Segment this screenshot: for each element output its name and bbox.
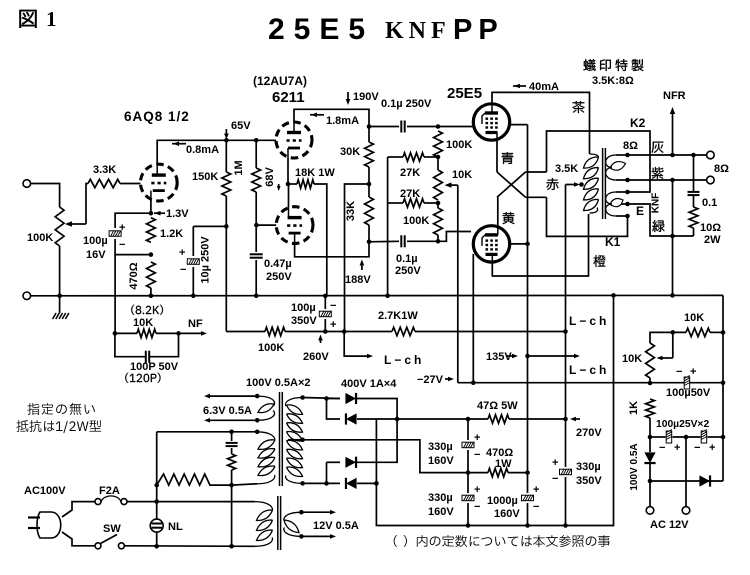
- svg-text:100µ50V: 100µ50V: [666, 387, 711, 399]
- capacitor C16 100u 25V: [701, 431, 707, 443]
- terminal AC12V right: [685, 437, 687, 507]
- wire 8ohm output bottom (purple): [628, 179, 708, 181]
- wire 1K to cap row: [649, 418, 651, 437]
- tube V5 25E5 lower: [473, 226, 509, 262]
- svg-text:1.8mA: 1.8mA: [326, 115, 359, 127]
- ground symbol: [59, 296, 61, 313]
- B+ node down to 47ohm: [565, 332, 567, 420]
- resistor R13 100K lower grid: [437, 203, 439, 208]
- svg-text:0.1µ 250V: 0.1µ 250V: [381, 98, 432, 110]
- capacitor C8 100u 350V electrolytic: [324, 296, 326, 309]
- diode D5 down: [649, 437, 651, 452]
- plug: [37, 512, 61, 538]
- capacitor C4 0.47u 250V: [255, 225, 257, 252]
- diode D6: [699, 475, 710, 486]
- resistor R6 1M: [255, 140, 257, 168]
- diode D3: [327, 461, 341, 463]
- svg-text:10K: 10K: [684, 312, 704, 324]
- neon lamp NL: [156, 485, 158, 519]
- svg-text:10K: 10K: [452, 169, 472, 181]
- resistor R16 2.7K 1W: [392, 327, 415, 335]
- 65V rail to 150K/1M and 6211 grid: [226, 139, 276, 141]
- capacitor C7 0.1 zobel: [693, 155, 695, 191]
- svg-text:100K: 100K: [446, 139, 472, 151]
- svg-text:188V: 188V: [345, 274, 371, 286]
- center tap red arrow: [566, 184, 577, 186]
- snubber capacitor C13: [231, 432, 233, 441]
- wire 6211 lower plate up to SRPP node: [288, 184, 290, 207]
- svg-text:−: −: [533, 501, 539, 513]
- svg-text:330µ: 330µ: [428, 441, 453, 453]
- diode D4: [326, 462, 328, 483]
- wire switch to heater transformer: [124, 545, 254, 548]
- svg-text:−: −: [119, 239, 125, 251]
- mid tap wire to cap midpoint: [303, 440, 468, 473]
- potentiometer VR1 100K: [55, 207, 64, 246]
- ground bus wire: [30, 294, 723, 296]
- input terminal J1: [23, 180, 31, 188]
- wire junction to screen feed 344: [345, 184, 370, 332]
- label 188V with up arrow: [361, 262, 363, 270]
- capacitor C2 100P 50V: [115, 333, 145, 356]
- label 0.8mA with left arrow: [172, 143, 186, 145]
- wire 6211 upper cathode to SRPP node: [287, 158, 289, 184]
- svg-text:E: E: [636, 204, 644, 218]
- svg-text:330µ: 330µ: [428, 492, 453, 504]
- capacitor C14 100u 50V: [684, 377, 690, 389]
- wire E tap: [628, 204, 673, 236]
- NF resistor R4 10K (8.2K): [131, 305, 163, 315]
- svg-text:47Ω 5W: 47Ω 5W: [477, 400, 518, 412]
- svg-text:−: −: [659, 442, 665, 454]
- note （）内の定数については本文参照の事: [394, 535, 610, 547]
- svg-text:160V: 160V: [494, 508, 520, 520]
- svg-text:+: +: [552, 457, 558, 469]
- svg-text:+: +: [330, 319, 336, 331]
- tube V4 25E5 upper: [473, 104, 509, 140]
- wire fuse to transformer: [127, 501, 255, 503]
- wire K1 route lower: [547, 197, 628, 236]
- svg-text:+: +: [674, 442, 680, 454]
- svg-text:190V: 190V: [353, 91, 379, 103]
- svg-text:L−ch: L−ch: [569, 363, 609, 377]
- svg-text:40mA: 40mA: [529, 81, 559, 93]
- svg-text:6.3V 0.5A: 6.3V 0.5A: [203, 405, 252, 417]
- svg-text:K1: K1: [605, 235, 621, 249]
- wire 33K bottom to 0.1u node: [368, 225, 370, 242]
- tube V2 6211 upper: [276, 122, 312, 158]
- svg-text:12V 0.5A: 12V 0.5A: [313, 520, 359, 532]
- wire wiper up to 3.3K: [86, 184, 88, 225]
- svg-text:3.5K:8Ω: 3.5K:8Ω: [592, 75, 634, 87]
- svg-text:8Ω: 8Ω: [714, 163, 729, 175]
- svg-text:65V: 65V: [231, 120, 251, 132]
- snubber resistor R19: [231, 448, 233, 454]
- capacitor C10 330u 160V lower: [467, 473, 469, 493]
- wiper of VR2 to -27V line: [448, 184, 458, 186]
- tube V3 6211 lower: [276, 207, 313, 244]
- svg-text:K2: K2: [630, 116, 646, 130]
- resistor R8 30K: [368, 127, 370, 143]
- svg-text:+: +: [709, 442, 715, 454]
- svg-text:−: −: [676, 366, 682, 378]
- svg-text:6211: 6211: [272, 89, 305, 106]
- wire plug to fuse: [62, 502, 95, 517]
- wire 470 bottom to ground bus: [150, 288, 152, 296]
- svg-text:2.7K1W: 2.7K1W: [378, 310, 418, 322]
- terminal AC12V left: [649, 481, 651, 507]
- wire 150K down to B+ rail corner: [225, 196, 227, 332]
- resistor R17 47ohm 5W: [468, 418, 488, 420]
- svg-text:NFR: NFR: [663, 90, 686, 102]
- note 指定の無い抵抗は1/2W型: [27, 403, 94, 415]
- 12V arrows: [301, 511, 332, 513]
- label 蟻印特製: [583, 59, 643, 71]
- wire from diode rail to 47ohm node: [397, 418, 468, 420]
- svg-text:NF: NF: [188, 318, 203, 330]
- wire 27K left column: [388, 156, 403, 158]
- OPT core: [602, 148, 604, 219]
- svg-text:250V: 250V: [395, 265, 421, 277]
- wire 25E5 lower cathode to orange: [492, 214, 588, 276]
- capacitor C1 100u 16V electrolytic: [109, 231, 121, 237]
- capacitor C6 0.1u 250V lower: [369, 240, 399, 243]
- svg-text:+: +: [119, 222, 125, 234]
- capacitor C3 10u 250V electrolytic: [193, 225, 226, 227]
- NFR arrow: [672, 112, 674, 155]
- svg-text:0.8mA: 0.8mA: [186, 144, 219, 156]
- thermistor R20: [156, 432, 158, 485]
- wiper of VR3: [660, 357, 673, 359]
- wire cathode node to 100u cap: [115, 213, 151, 228]
- wire plug to switch: [62, 532, 95, 546]
- resistor R3 470ohm: [147, 262, 156, 288]
- resistor R5 150K: [225, 140, 227, 172]
- svg-text:100µ: 100µ: [83, 235, 108, 247]
- svg-text:330µ: 330µ: [576, 461, 601, 473]
- wire grid upper 25E5: [438, 126, 474, 128]
- PT primary winding: [257, 432, 275, 441]
- resistor R7 18K 1W: [288, 183, 297, 185]
- wire grid lower 25E5: [438, 232, 471, 242]
- label 270V with left arrow: [573, 418, 580, 420]
- svg-text:−: −: [552, 473, 558, 485]
- wire 6AQ8 plate up to 65V rail: [157, 140, 226, 165]
- svg-text:+: +: [533, 484, 539, 496]
- svg-text:18K 1W: 18K 1W: [295, 167, 335, 179]
- L-ch arrow 1: [344, 332, 369, 357]
- wire K2 route upper: [547, 131, 651, 192]
- resistor R10 100K upper grid: [434, 131, 443, 157]
- label cha (brown): [572, 101, 584, 113]
- svg-text:100P 50V: 100P 50V: [130, 361, 179, 373]
- svg-text:SW: SW: [103, 523, 121, 535]
- screen rail vertical: [527, 125, 529, 356]
- PT 6.3V winding: [257, 396, 274, 406]
- wire 1M bottom to grid node: [255, 192, 257, 225]
- label 1.8mA with left arrow: [310, 114, 324, 116]
- NF arrow: [179, 332, 204, 334]
- PT HV secondary winding: [286, 398, 303, 407]
- power transformer PT core: [279, 392, 281, 486]
- svg-text:100K: 100K: [258, 342, 284, 354]
- resistor R12 27K lower: [403, 199, 424, 207]
- svg-text:F2A: F2A: [99, 485, 120, 497]
- diode rail top: [303, 398, 340, 399]
- OPT secondary 8ohm winding: [616, 154, 628, 156]
- negative bus bottom: [376, 295, 613, 525]
- label 橙 (orange): [593, 255, 605, 267]
- wire center tap B+ down: [565, 185, 567, 332]
- svg-text:100µ25V×2: 100µ25V×2: [656, 419, 709, 430]
- wire 6211 lower grid: [256, 224, 276, 226]
- svg-text:1.2K: 1.2K: [160, 228, 183, 240]
- right vertical from bus corner: [722, 295, 724, 481]
- capacitor C11 1000u 160V: [527, 473, 529, 493]
- wire 6AQ8 cathode down: [150, 200, 152, 213]
- svg-text:10µ 250V: 10µ 250V: [200, 236, 212, 284]
- svg-text:100V 0.5A: 100V 0.5A: [629, 443, 640, 490]
- wire pot bottom to ground bus: [59, 246, 61, 296]
- capacitor C12 330u 350V: [565, 419, 567, 467]
- label 260V with up arrow: [320, 337, 322, 343]
- svg-text:135V: 135V: [486, 351, 512, 363]
- svg-text:160V: 160V: [428, 506, 454, 518]
- svg-text:KNF: KNF: [651, 193, 662, 214]
- svg-text:−: −: [180, 264, 186, 276]
- B+ 260V rail: [226, 331, 265, 333]
- label 40mA with left arrow: [513, 85, 526, 87]
- HT primary winding: [255, 502, 273, 511]
- svg-text:27K: 27K: [400, 167, 420, 179]
- svg-text:3.5K: 3.5K: [555, 163, 578, 175]
- svg-text:160V: 160V: [428, 455, 454, 467]
- svg-text:350V: 350V: [576, 475, 602, 487]
- svg-text:16V: 16V: [86, 249, 106, 261]
- svg-text:400V 1A×4: 400V 1A×4: [341, 378, 397, 390]
- wire AC2 up from switch rail: [231, 485, 233, 546]
- svg-text:0.1: 0.1: [702, 197, 717, 209]
- label 1.3V with left arrow: [154, 212, 165, 214]
- potentiometer VR2 10K bias: [437, 157, 439, 170]
- svg-text:0.47µ: 0.47µ: [264, 258, 292, 270]
- svg-text:+: +: [474, 484, 480, 496]
- svg-text:1K: 1K: [628, 401, 640, 415]
- bottom wire of rectifier: [650, 480, 723, 482]
- HT 12V winding: [284, 512, 302, 521]
- svg-text:10Ω: 10Ω: [700, 222, 721, 234]
- -27V bias rail: [458, 382, 723, 384]
- wire input to pot: [30, 184, 59, 208]
- svg-text:+: +: [179, 247, 185, 259]
- svg-text:8Ω: 8Ω: [623, 140, 638, 152]
- svg-text:30K: 30K: [340, 146, 360, 158]
- ground terminal: [23, 292, 31, 300]
- resistor R2 1.2K: [147, 218, 156, 243]
- wire -27V rail continues from box: [721, 380, 726, 385]
- svg-text:10K: 10K: [133, 317, 153, 329]
- svg-text:6AQ8 1/2: 6AQ8 1/2: [124, 109, 190, 124]
- resistor R9 33K: [365, 197, 374, 225]
- svg-text:68V: 68V: [264, 167, 276, 187]
- capacitor C15 100u 25V: [650, 436, 666, 438]
- wire 3.3K to 6AQ8 grid: [120, 183, 141, 185]
- svg-text:350V: 350V: [291, 315, 317, 327]
- svg-text:100K: 100K: [403, 215, 429, 227]
- svg-text:−: −: [474, 501, 480, 513]
- svg-text:0.1µ: 0.1µ: [396, 253, 418, 265]
- svg-text:470Ω: 470Ω: [128, 262, 140, 289]
- svg-text:250V: 250V: [266, 271, 292, 283]
- svg-text:PP: PP: [453, 14, 504, 46]
- wire 30K to 33K junction: [368, 167, 370, 197]
- svg-text:270V: 270V: [576, 427, 602, 439]
- resistor R14 10ohm 2W: [693, 196, 695, 207]
- svg-text:L−ch: L−ch: [384, 353, 424, 367]
- wire pot bottom to 100u50V rail: [649, 378, 651, 383]
- wire 100u bottom to 1.2K bottom junction: [115, 239, 151, 255]
- svg-text:3.3K: 3.3K: [93, 164, 116, 176]
- svg-text:25E5: 25E5: [268, 13, 374, 46]
- wire 25E5 upper plate to transformer top (40mA): [492, 92, 590, 154]
- wire 100u junction down to NF network: [114, 255, 116, 334]
- cross wires X: [497, 172, 526, 197]
- wiper of VR1: [70, 223, 86, 225]
- wire purple down to E line and bus: [672, 180, 674, 295]
- wire 6211 upper plate to 190V: [294, 109, 369, 126]
- OPT secondary KNF winding: [616, 191, 628, 193]
- wire 25E5 lower plate up to X: [497, 197, 499, 226]
- svg-text:−: −: [330, 300, 336, 312]
- svg-text:AC100V: AC100V: [24, 485, 66, 497]
- svg-text:−: −: [474, 449, 480, 461]
- wire beam plate to -27V rail: [472, 254, 474, 383]
- resistor R18 470ohm 1W: [488, 468, 508, 476]
- svg-text:27K: 27K: [400, 188, 420, 200]
- svg-text:−27V: −27V: [417, 374, 444, 386]
- labels gray purple green: [652, 142, 664, 153]
- 6.3V arrows: [208, 395, 257, 397]
- label 190V with down arrow: [347, 92, 349, 102]
- svg-text:(12AU7A): (12AU7A): [253, 74, 307, 88]
- diode D2: [327, 399, 341, 420]
- wire 8ohm output top (gray): [628, 154, 708, 156]
- capacitor C5 0.1u 250V upper: [369, 126, 399, 128]
- svg-text:150K: 150K: [192, 171, 218, 183]
- output terminal 8ohm bottom: [707, 176, 715, 184]
- svg-text:AC 12V: AC 12V: [650, 519, 689, 531]
- wire 6211 lower cathode to 188V node: [295, 242, 369, 257]
- heater transformer HT core: [277, 496, 279, 550]
- svg-text:KNF: KNF: [385, 18, 451, 44]
- svg-text:+: +: [690, 366, 696, 378]
- resistor R11 27K upper: [403, 153, 424, 161]
- svg-text:100µ: 100µ: [291, 302, 316, 314]
- wire 25E5 upper screen to screen rail: [510, 124, 528, 126]
- svg-text:1W: 1W: [495, 458, 512, 470]
- tube V1 6AQ8 1/2: [140, 164, 177, 201]
- svg-text:33K: 33K: [345, 201, 357, 221]
- svg-text:2W: 2W: [704, 234, 721, 246]
- svg-text:1M: 1M: [233, 160, 245, 175]
- L-ch arrow 2: [528, 355, 577, 357]
- screen rail down to 135V: [527, 356, 529, 473]
- resistor R1 3.3K: [88, 179, 120, 187]
- figure label 図1: [20, 10, 37, 28]
- wire 25E5 lower screen to rail: [510, 243, 528, 245]
- svg-text:1.3V: 1.3V: [166, 208, 189, 220]
- svg-text:1: 1: [46, 7, 57, 31]
- wire 18K right end down to bus: [314, 184, 327, 296]
- svg-text:10K: 10K: [622, 353, 642, 365]
- svg-text:+: +: [474, 432, 480, 444]
- diode D1: [327, 398, 341, 400]
- svg-text:260V: 260V: [303, 351, 329, 363]
- resistor R21 10K top: [650, 332, 686, 343]
- capacitor C9 330u 160V upper: [467, 419, 469, 440]
- wire primary top rail: [157, 431, 258, 433]
- svg-text:100K: 100K: [27, 232, 53, 244]
- output terminal 8ohm top: [707, 151, 715, 159]
- svg-text:−: −: [694, 442, 700, 454]
- potentiometer VR3 10K: [646, 343, 655, 378]
- svg-text:L−ch: L−ch: [569, 314, 609, 328]
- output transformer OPT primary 3.5K: [590, 154, 599, 158]
- svg-text:1000µ: 1000µ: [487, 495, 518, 507]
- resistor R22 1K: [646, 399, 655, 418]
- wire 25E5 upper cathode down (blue): [496, 141, 498, 173]
- resistor R15 100K: [265, 327, 285, 335]
- svg-text:100V 0.5A×2: 100V 0.5A×2: [246, 377, 311, 389]
- svg-text:NL: NL: [168, 521, 183, 533]
- svg-text:25E5: 25E5: [447, 85, 482, 102]
